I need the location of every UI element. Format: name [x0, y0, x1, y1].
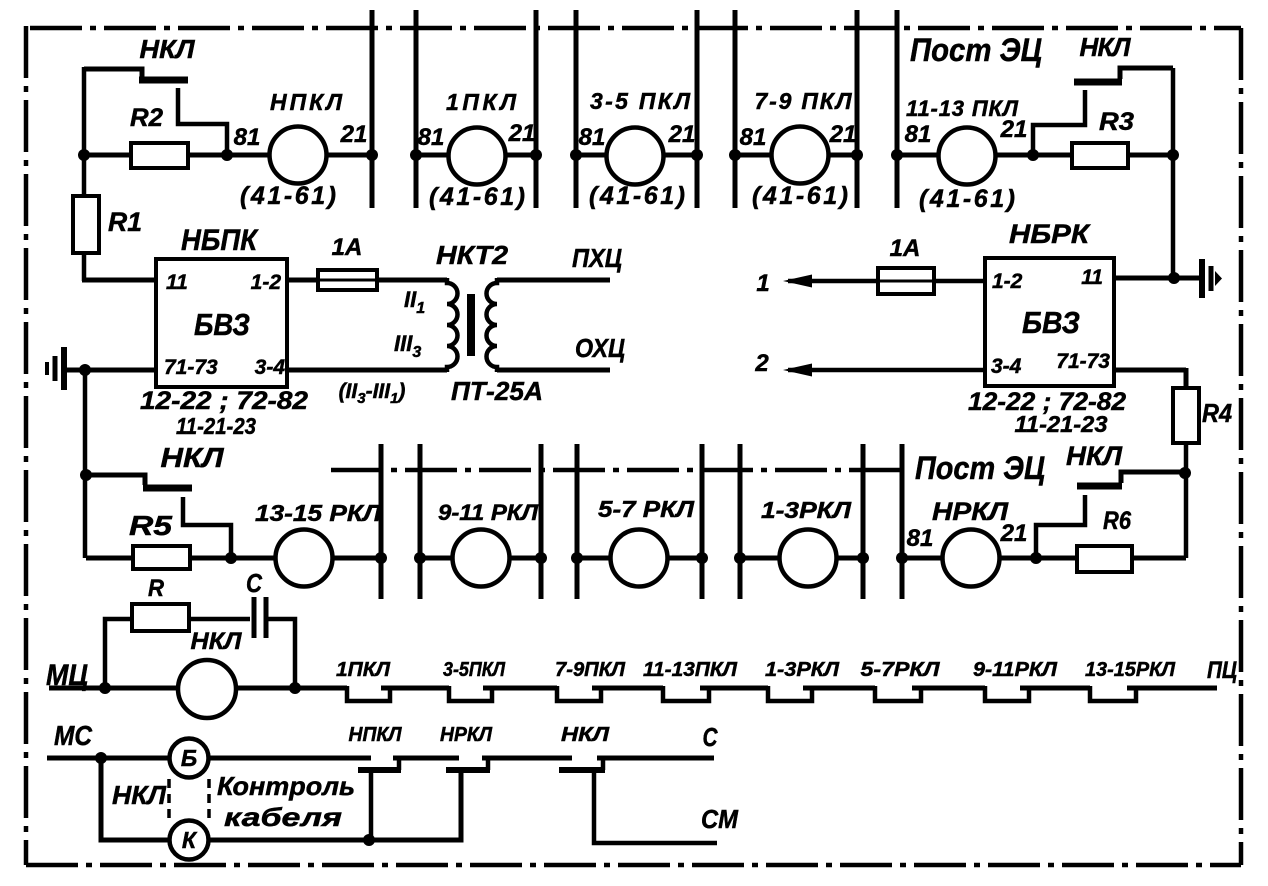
wire contact to node L-shape bottom-right [1036, 495, 1085, 558]
block БВЗ left (НБПК) [156, 259, 287, 387]
node R5 right [225, 552, 237, 564]
svg-text:3-5 ПКЛ: 3-5 ПКЛ [590, 88, 691, 114]
contact НКЛ bottom-left fixed blade [86, 475, 145, 485]
svg-text:R3: R3 [1099, 108, 1134, 136]
contact 9-11РКЛ notch [985, 686, 1029, 701]
node bus11 [535, 552, 547, 564]
wire bus bottom 4 [575, 444, 580, 599]
border top [30, 26, 1241, 31]
node bus6 [729, 149, 741, 161]
svg-text:71-73: 71-73 [164, 356, 218, 379]
wire ground to box 71-73 [64, 368, 156, 373]
wire arrow 2 [788, 368, 985, 373]
svg-text:R1: R1 [108, 207, 142, 237]
svg-text:21: 21 [829, 121, 857, 148]
svg-text:С: С [703, 722, 719, 752]
wire box to fuse [287, 278, 320, 283]
repeater Б [170, 739, 209, 778]
wire R4 down to R6 wire [1184, 443, 1189, 558]
resistor R1 [73, 196, 99, 253]
wire bus top 6 [733, 10, 738, 208]
wire bus bottom 6 [738, 444, 743, 599]
border right [1239, 28, 1244, 865]
svg-text:2: 2 [754, 350, 769, 377]
wire bus bottom 7 [861, 444, 866, 599]
svg-text:3-4: 3-4 [991, 355, 1022, 378]
border left [24, 26, 29, 865]
contact 7-9ПКЛ notch [557, 686, 601, 701]
contact 11-13ПКЛ notch [663, 686, 709, 701]
svg-text:81: 81 [418, 124, 445, 151]
wire into box 11 [82, 278, 156, 283]
svg-text:R6: R6 [1103, 507, 1132, 535]
svg-text:1А: 1А [890, 235, 921, 262]
node МЦ left [99, 682, 111, 694]
svg-text:К: К [182, 827, 198, 853]
svg-text:Б: Б [181, 745, 197, 771]
wire bus bottom 1 [379, 444, 384, 599]
svg-text:7-9 ПКЛ: 7-9 ПКЛ [755, 88, 853, 114]
wire bus top 1 [370, 10, 375, 208]
svg-text:1ПКЛ: 1ПКЛ [336, 659, 391, 681]
svg-text:81: 81 [740, 124, 767, 151]
node bus8 [891, 149, 903, 161]
svg-text:12-22 ; 72-82: 12-22 ; 72-82 [140, 387, 308, 415]
wire МС row [47, 756, 714, 761]
svg-text:III3: III3 [394, 331, 421, 361]
svg-text:ПТ-25А: ПТ-25А [451, 376, 543, 406]
svg-text:II1: II1 [404, 287, 425, 317]
svg-text:НПКЛ: НПКЛ [349, 724, 403, 746]
wire МЦ row segments [49, 686, 1217, 691]
svg-text:11: 11 [166, 271, 188, 294]
contact НКЛ bottom-right fixed blade [1121, 472, 1186, 483]
svg-text:(41-61): (41-61) [752, 182, 848, 210]
svg-text:11-13ПКЛ: 11-13ПКЛ [643, 659, 738, 681]
svg-text:НКЛ: НКЛ [112, 780, 167, 810]
svg-text:1ПКЛ: 1ПКЛ [446, 89, 517, 115]
node МЦ right [289, 682, 301, 694]
svg-text:(41-61): (41-61) [919, 185, 1015, 213]
svg-text:1А: 1А [332, 234, 363, 261]
svg-text:13-15 РКЛ: 13-15 РКЛ [255, 500, 382, 526]
wire RC loop [105, 619, 295, 688]
node ground junction [79, 364, 91, 376]
relay НПКЛ [270, 127, 327, 184]
node contact left [80, 469, 92, 481]
svg-text:ОХЦ: ОХЦ [575, 333, 625, 363]
node R3 left [1027, 149, 1039, 161]
relay 11-13ПКЛ [939, 128, 996, 185]
wire bottom row main [86, 556, 1186, 561]
contact НКЛ МС row [559, 767, 605, 773]
wire pin 11 to ground right [1114, 276, 1199, 281]
svg-text:1-3РКЛ: 1-3РКЛ [761, 497, 852, 523]
wire bus bottom 3 [539, 444, 544, 599]
wire pin 71-73 to R4 [1114, 368, 1186, 390]
svg-text:НКТ2: НКТ2 [436, 240, 509, 270]
svg-text:1-3РКЛ: 1-3РКЛ [765, 659, 840, 681]
node 11 wire [1168, 272, 1180, 284]
node bus5 [691, 149, 703, 161]
wire bus top 3 [534, 10, 539, 208]
svg-text:R4: R4 [1202, 398, 1232, 428]
contact 3-5ПКЛ notch [449, 686, 492, 701]
svg-text:БВЗ: БВЗ [194, 307, 250, 342]
svg-text:81: 81 [579, 124, 606, 151]
svg-text:НКЛ: НКЛ [140, 34, 196, 64]
node bus15 [857, 552, 869, 564]
wire bus bottom 2 [418, 444, 423, 599]
contact НРКЛ МС row [446, 767, 490, 773]
wire bus bottom 5 [700, 444, 705, 599]
wire bus top 8 [895, 10, 900, 208]
fuse F1 left [318, 270, 377, 290]
svg-text:13-15РКЛ: 13-15РКЛ [1085, 659, 1176, 681]
contact НКЛ top-left fixed blade [84, 69, 142, 77]
block БВЗ right (НБРК) [985, 258, 1114, 386]
relay 1ПКЛ [449, 128, 506, 185]
relay 13-15РКЛ [276, 530, 333, 587]
wire bus bottom 8 [900, 444, 905, 599]
arrowhead 1 [783, 275, 812, 288]
wire top row main [84, 153, 1173, 158]
ground right [1199, 259, 1205, 298]
wire НПКЛ blade down [369, 770, 374, 840]
contact НПКЛ МС row [358, 767, 401, 773]
node bus14 [734, 552, 746, 564]
wire НКЛ blade down to СМ [594, 770, 717, 843]
svg-text:ПХЦ: ПХЦ [572, 243, 622, 273]
svg-text:5-7 РКЛ: 5-7 РКЛ [598, 496, 695, 522]
wire МС loop down [101, 758, 170, 840]
dashed box Контроль кабеля left edge [167, 779, 171, 822]
svg-text:(41-61): (41-61) [240, 182, 336, 210]
svg-text:Пост ЭЦ: Пост ЭЦ [910, 32, 1042, 68]
wire secondary top ПХЦ [497, 278, 610, 283]
svg-text:3-4: 3-4 [255, 356, 286, 379]
wire contact to node L-shape right [1033, 90, 1085, 155]
resistor R6 [1077, 546, 1132, 572]
svg-text:81: 81 [905, 121, 932, 148]
node R2 right [221, 149, 233, 161]
boundary dash-dot line Пост ЭЦ [331, 468, 900, 473]
ground left [61, 347, 67, 390]
svg-text:кабеля: кабеля [224, 802, 342, 832]
wire bus top 7 [855, 10, 860, 208]
svg-text:21: 21 [508, 120, 536, 147]
contact 13-15РКЛ notch [1090, 686, 1136, 701]
relay НРКЛ [943, 530, 1000, 587]
node bus3 [530, 149, 542, 161]
node К wire [363, 834, 375, 846]
svg-text:НБРК: НБРК [1009, 219, 1092, 249]
wire vertical left x84 [82, 67, 87, 281]
transformer core [467, 294, 475, 356]
node R2 left [78, 149, 90, 161]
svg-text:21: 21 [668, 121, 696, 148]
node bus9 [375, 552, 387, 564]
relay 1-3РКЛ [780, 530, 837, 587]
svg-text:НКЛ: НКЛ [561, 724, 610, 746]
svg-text:R2: R2 [130, 104, 163, 132]
capacitor С [250, 609, 266, 629]
svg-text:71-73: 71-73 [1056, 350, 1110, 373]
svg-text:R5: R5 [129, 510, 173, 541]
wire fuse to transformer [377, 278, 447, 283]
node bus1 [366, 149, 378, 161]
contact НКЛ top-right moving blade [1074, 79, 1122, 86]
svg-text:7-9ПКЛ: 7-9ПКЛ [555, 659, 626, 681]
svg-text:(II3-III1): (II3-III1) [339, 380, 406, 407]
wire contact to node L-shape [178, 88, 227, 155]
node bus10 [414, 552, 426, 564]
contact 1ПКЛ notch [347, 686, 390, 701]
contact НКЛ bottom-left moving blade [143, 485, 192, 492]
node bus13 [696, 552, 708, 564]
node R6 left [1030, 552, 1042, 564]
contact 1-3РКЛ notch [768, 686, 812, 701]
svg-text:3-5ПКЛ: 3-5ПКЛ [443, 659, 506, 681]
svg-text:Пост ЭЦ: Пост ЭЦ [915, 450, 1045, 486]
svg-text:5-7РКЛ: 5-7РКЛ [861, 659, 941, 681]
wire vertical left mid x85 [83, 370, 88, 558]
svg-text:(41-61): (41-61) [589, 182, 685, 210]
wire bus top 5 [695, 10, 700, 208]
svg-text:11: 11 [1081, 266, 1103, 289]
relay НКЛ МЦ row [178, 660, 236, 718]
resistor R [132, 604, 189, 631]
svg-text:БВЗ: БВЗ [1022, 305, 1080, 340]
svg-text:21: 21 [1000, 520, 1028, 547]
repeater К [170, 821, 209, 860]
transformer НКТ2 secondary winding [487, 278, 497, 372]
svg-text:НКЛ: НКЛ [161, 442, 225, 473]
contact НКЛ top-right fixed blade [1120, 68, 1173, 79]
transformer НКТ2 primary winding [447, 278, 458, 372]
svg-text:11-21-23: 11-21-23 [1015, 411, 1108, 437]
relay 3-5ПКЛ [607, 128, 664, 185]
svg-text:Контроль: Контроль [217, 771, 355, 801]
contact НКЛ top-left moving blade [139, 77, 188, 84]
wire bus top 2 [414, 10, 419, 208]
fuse F2 right [878, 268, 934, 294]
wire contact to node L-shape bottom-left [183, 497, 231, 558]
resistor R2 [131, 143, 188, 168]
svg-text:1-2: 1-2 [992, 270, 1023, 293]
wire vertical right x1173 [1171, 68, 1176, 278]
resistor R4 [1173, 388, 1199, 443]
svg-text:НКЛ: НКЛ [191, 628, 243, 655]
svg-text:НРКЛ: НРКЛ [932, 498, 1009, 526]
dashed box Контроль кабеля right edge [207, 779, 211, 822]
svg-text:МС: МС [54, 720, 93, 751]
svg-text:НПКЛ: НПКЛ [270, 89, 343, 115]
contact 5-7РКЛ notch [875, 686, 921, 701]
node contact right [1179, 467, 1191, 479]
resistor R3 [1072, 143, 1128, 168]
svg-text:R: R [148, 575, 165, 602]
border bottom [26, 863, 1241, 868]
svg-text:НБПК: НБПК [181, 224, 259, 257]
relay 7-9ПКЛ [772, 127, 829, 184]
svg-text:21: 21 [340, 121, 368, 148]
svg-text:НКЛ: НКЛ [1066, 441, 1123, 471]
svg-text:СМ: СМ [701, 804, 739, 834]
resistor R5 [133, 546, 190, 569]
node R3 right [1167, 149, 1179, 161]
svg-text:81: 81 [907, 525, 934, 552]
svg-text:1-2: 1-2 [251, 271, 282, 294]
svg-text:НКЛ: НКЛ [1080, 32, 1132, 62]
node bus16 [896, 552, 908, 564]
svg-text:9-11РКЛ: 9-11РКЛ [973, 659, 1058, 681]
svg-text:НРКЛ: НРКЛ [440, 724, 493, 746]
svg-text:11-21-23: 11-21-23 [176, 413, 256, 439]
arrowhead 2 [783, 364, 812, 377]
node bus12 [571, 552, 583, 564]
wire bus top 4 [574, 10, 579, 208]
svg-text:1: 1 [756, 270, 769, 297]
node МС left [95, 752, 107, 764]
relay 5-7РКЛ [611, 530, 668, 587]
wire secondary bottom ОХЦ [497, 368, 610, 373]
node bus2 [410, 149, 422, 161]
node bus4 [570, 149, 582, 161]
svg-text:С: С [246, 568, 263, 598]
wire К to НРКЛ blade [208, 772, 461, 840]
relay 9-11РКЛ [453, 530, 510, 587]
svg-text:81: 81 [234, 124, 261, 151]
svg-text:(41-61): (41-61) [429, 183, 525, 211]
svg-text:9-11 РКЛ: 9-11 РКЛ [438, 500, 539, 525]
svg-text:21: 21 [1000, 116, 1028, 143]
node bus7 [851, 149, 863, 161]
wire arrow 1 [788, 279, 985, 284]
wire box 3-4 to transformer [287, 368, 447, 373]
svg-text:ПЦ: ПЦ [1207, 657, 1237, 684]
contact НКЛ bottom-right moving blade [1077, 483, 1122, 490]
